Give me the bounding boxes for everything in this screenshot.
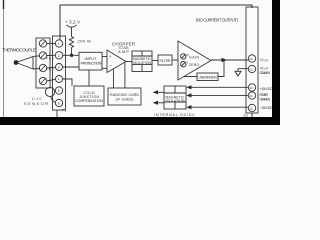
terminal 12 [248, 84, 255, 91]
wire output node down to linearizer [218, 60, 224, 77]
wire filter to output amp [172, 59, 178, 61]
supply arc symbol [67, 25, 77, 27]
wire screw S2 to terminal 2 [47, 54, 56, 56]
wire power common terminal to power isolation [191, 94, 248, 96]
output terminal strip [246, 7, 258, 113]
page edge dark tick top-left [3, 0, 5, 9]
svg-text:6: 6 [58, 102, 60, 106]
screw terminal block [36, 38, 50, 88]
svg-text:− 15 V DC: − 15 V DC [260, 106, 273, 110]
wire screw S3 to terminal 3 [47, 66, 56, 69]
svg-text:COMMON: COMMON [260, 71, 271, 75]
wire terminal 13 to floating common [238, 69, 248, 72]
svg-text:SENSOR: SENSOR [24, 101, 48, 106]
junction node A [70, 54, 73, 57]
svg-text:−: − [109, 63, 112, 68]
wire input protection to cold junction compensation [88, 70, 90, 86]
svg-text:VOUT: VOUT [260, 58, 269, 62]
svg-text:(IF USED): (IF USED) [116, 98, 134, 102]
svg-text:+: + [109, 54, 112, 59]
wire output strip to board edge [251, 113, 253, 118]
arrowhead +15V into isolation [186, 85, 191, 89]
svg-text:TC−: TC− [46, 68, 55, 72]
wire output amp to terminal 14 [211, 59, 249, 61]
svg-text:COMMON: COMMON [260, 97, 271, 101]
thermocouple probe body [16, 56, 33, 69]
wire isolation to filter [152, 60, 158, 62]
terminal 11 [248, 92, 255, 99]
svg-text:14: 14 [249, 57, 253, 61]
wire power isolation left supply upper [158, 91, 164, 93]
svg-text:ISOLATION: ISOLATION [166, 99, 186, 103]
terminal 1 [55, 40, 62, 47]
thermocouple probe junction dot [14, 60, 19, 65]
svg-text:12: 12 [249, 86, 253, 90]
svg-text:COMPENSATION: COMPENSATION [75, 99, 103, 103]
wire chopper feedback left to ranging card [113, 69, 115, 88]
op-amp output amplifier [178, 41, 211, 80]
svg-text:THERMOCOUPLE: THERMOCOUPLE [2, 48, 36, 53]
wire CJC sensor to terminal 6 [51, 97, 56, 103]
screw terminal S4 [39, 77, 46, 84]
wire terminal 4 to cold junction compensation [63, 79, 73, 86]
svg-text:INTERNAL DC/DC: INTERNAL DC/DC [154, 113, 195, 117]
svg-text:200 M: 200 M [78, 39, 91, 44]
svg-text:TC+: TC+ [46, 57, 55, 61]
wire terminal 3 to input protection [63, 66, 80, 68]
wire terminal 2 to input protection [63, 54, 79, 56]
svg-text:+ 15 V DC: + 15 V DC [260, 87, 273, 91]
wire +15V terminal to power isolation [191, 86, 248, 88]
svg-text:AMP: AMP [118, 49, 129, 54]
page right black bar [272, 0, 280, 125]
svg-text:GAIN: GAIN [189, 55, 200, 59]
terminal 6 [55, 99, 62, 106]
wire power isolation left supply lower [158, 102, 164, 104]
svg-text:ISOLATION: ISOLATION [133, 61, 152, 65]
svg-text:FILTER: FILTER [160, 59, 171, 63]
arrowhead -15V into isolation [186, 105, 191, 109]
wire linearizer to output amp feedback [184, 76, 197, 78]
terminal 3 [56, 64, 63, 71]
arrowhead on output wire [222, 58, 228, 63]
power magnetic isolation transformer [164, 86, 186, 109]
cold junction compensation block [74, 86, 104, 106]
page edge line left [3, 0, 5, 117]
trimpot ZERO [181, 61, 186, 66]
svg-text:11: 11 [249, 94, 252, 98]
floating common symbol [235, 71, 241, 76]
svg-text:1: 1 [58, 42, 60, 46]
svg-text:10: 10 [249, 107, 253, 111]
wire screw S1 to terminal 1 [47, 43, 56, 45]
svg-text:4: 4 [58, 78, 60, 82]
wire CJC sensor to terminal 5 [54, 90, 55, 93]
filter block [158, 55, 172, 65]
wire supply to resistor [71, 27, 73, 36]
wire resistor to node A [71, 48, 73, 56]
wire TC- lead to screw terminal [33, 67, 40, 70]
svg-text:2: 2 [58, 54, 60, 58]
arrowhead power common into isolation [186, 93, 191, 97]
terminal 2 [55, 52, 62, 59]
wire -15V terminal to power isolation [191, 106, 248, 108]
svg-text:ZERO: ZERO [189, 63, 199, 67]
svg-text:(NO CURRENT OUTPUT): (NO CURRENT OUTPUT) [196, 17, 239, 22]
wire chopper feedback right to ranging card [124, 63, 126, 88]
signal magnetic isolation transformer [132, 51, 152, 72]
trimpot GAIN [181, 54, 186, 59]
module enclosure outline [60, 5, 252, 40]
wire chopper output to magnetic isolation [126, 61, 132, 63]
terminal 14 [248, 55, 255, 62]
svg-text:3: 3 [58, 66, 60, 70]
resistor 200 M (open TC detect) [69, 37, 73, 48]
terminal 13 [248, 65, 255, 72]
wire input protection to chopper + input [102, 56, 107, 58]
terminal 4 [56, 76, 63, 83]
svg-text:P1: P1 [62, 109, 67, 113]
arrowhead left supply lower [153, 101, 158, 105]
input protection block [79, 52, 102, 70]
svg-text:+ 3.2 V: + 3.2 V [65, 19, 80, 24]
terminal 5 [55, 87, 62, 94]
wire TC+ lead to screw terminal [33, 55, 40, 58]
arrowhead left supply upper [153, 90, 158, 94]
screw terminal S3 [39, 64, 46, 71]
screw terminal S2 [39, 52, 46, 59]
page bottom black bar [0, 117, 280, 125]
svg-text:PROTECTION: PROTECTION [81, 61, 102, 66]
wire terminal 6 down to board edge [56, 110, 58, 117]
linearizer block [197, 73, 218, 81]
svg-text:LINEARIZER: LINEARIZER [198, 76, 217, 80]
CJC sensor [45, 87, 54, 96]
svg-text:RANGING CARD: RANGING CARD [110, 93, 139, 97]
svg-text:5: 5 [58, 89, 60, 93]
field terminal strip [53, 36, 66, 110]
screw terminal S1 [39, 40, 46, 47]
svg-text:13: 13 [249, 68, 253, 72]
op-amp chopper amplifier [107, 50, 126, 73]
wire input protection to chopper - input [102, 67, 107, 69]
terminal 10 [248, 104, 255, 111]
ranging card block [108, 88, 141, 105]
wire screw S4 to terminal 4 [47, 79, 56, 81]
